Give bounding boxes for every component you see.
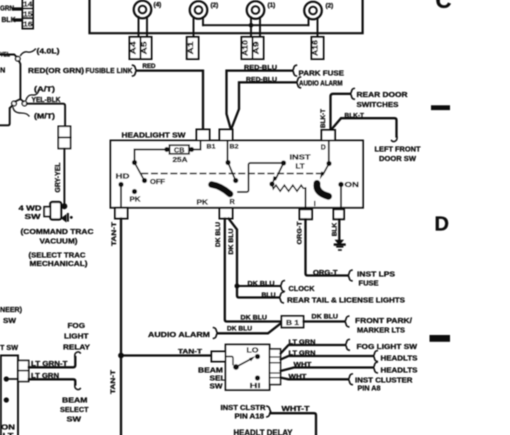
svg-text:AUDIO ALARM: AUDIO ALARM (299, 79, 343, 88)
brace inst lps fuse (348, 270, 352, 281)
wire A/T branch to connector (27, 104, 65, 127)
terminal B2 (220, 130, 233, 141)
svg-text:DK BLU: DK BLU (248, 280, 275, 287)
svg-text:SW: SW (3, 316, 17, 325)
svg-text:LT GRN-T: LT GRN-T (31, 359, 68, 368)
svg-text:(2): (2) (326, 2, 334, 9)
svg-text:14: 14 (23, 1, 32, 8)
svg-text:FRONT PARK/: FRONT PARK/ (355, 316, 413, 325)
svg-text:DK BLU: DK BLU (227, 326, 252, 333)
wire TAN-T down (120, 219, 122, 435)
bulb3 legs to A10 A9 (251, 17, 260, 37)
wire LT GRN to headlts 1 (281, 356, 373, 360)
hook left front door sw (392, 135, 398, 142)
inline connector GRY-YEL upper (58, 126, 70, 137)
D switch arm with arrowhead (323, 164, 329, 175)
rheostat zigzag (272, 184, 306, 191)
brace front park (345, 316, 349, 327)
splice B1 (282, 316, 304, 328)
INST lower contact (269, 181, 274, 186)
svg-text:TAN-T: TAN-T (111, 221, 118, 246)
svg-text:REAR TAIL & LICENSE LIGHTS: REAR TAIL & LICENSE LIGHTS (287, 296, 405, 305)
linkage dashed line (142, 173, 321, 175)
wire to clock (237, 285, 280, 287)
wire RED-BLU to park fuse (227, 71, 293, 130)
wire RED to B1 terminal (137, 71, 203, 130)
svg-text:MECHANICAL): MECHANICAL) (30, 259, 89, 268)
svg-text:LT GRN: LT GRN (31, 371, 59, 380)
wire YEL down to junction (19, 61, 20, 99)
svg-text:SW: SW (67, 415, 83, 424)
wire RED-BLU to audio alarm (232, 82, 296, 127)
svg-text:INST LPS: INST LPS (357, 270, 395, 279)
svg-text:NEER): NEER) (0, 305, 22, 314)
brace fusible link (133, 65, 137, 76)
beam linkage step (226, 357, 234, 365)
connector A10 (242, 37, 253, 59)
left wiper arc (212, 185, 231, 195)
svg-text:REAR DOOR: REAR DOOR (357, 90, 409, 99)
OFF contact (142, 178, 147, 183)
brace park fuse (293, 65, 297, 76)
svg-text:(4): (4) (154, 1, 162, 8)
wire CB to B1 (192, 141, 201, 150)
beam sel sw left connector (212, 352, 226, 362)
svg-text:SW: SW (210, 382, 224, 391)
svg-text:WHT-T: WHT-T (282, 404, 311, 413)
wire LT GRN-T to fog light relay (29, 357, 76, 367)
svg-text:RED(OR GRN): RED(OR GRN) (28, 66, 85, 75)
svg-text:RELAY: RELAY (63, 343, 90, 352)
wire WHT to headlts 2 (281, 368, 373, 372)
wire HD to PK terminal (120, 185, 122, 208)
beam sel sw right connectors (270, 349, 281, 385)
wire WHT-T to headlt delay (271, 413, 316, 435)
svg-text:PIN A18: PIN A18 (235, 414, 265, 421)
svg-text:R: R (230, 197, 236, 206)
4WD switch wedge contact (61, 214, 67, 223)
terminal I (ORG-T) (300, 209, 313, 219)
svg-text:LO: LO (247, 346, 259, 355)
4WD switch tab (44, 207, 50, 217)
terminal D (322, 130, 336, 141)
wire WHT to inst cluster (281, 378, 348, 380)
svg-text:DOOR SW: DOOR SW (379, 154, 417, 163)
wire LT GRN to fog light sw (281, 345, 345, 354)
svg-text:ORG-T: ORG-T (313, 268, 338, 277)
pin 14 (23, 0, 34, 9)
bulb1 legs to A4 A5 (139, 17, 148, 37)
connector A1 (187, 37, 199, 59)
svg-text:BLK-T: BLK-T (320, 108, 327, 128)
svg-text:(COMMAND TRAC: (COMMAND TRAC (21, 227, 94, 236)
wire TAN-T to beam sel sw (121, 354, 212, 356)
fog/beam switch box (cut at edge) (1, 355, 18, 435)
connector A9 (253, 37, 264, 59)
svg-text:(A/T): (A/T) (34, 85, 56, 94)
wire BLK-T to left front door sw (332, 118, 397, 136)
connector A16 (312, 37, 324, 59)
svg-text:CB: CB (174, 147, 185, 154)
brace rear door switches (351, 88, 355, 99)
right wiper arc (317, 184, 329, 197)
svg-text:INST: INST (290, 153, 312, 162)
svg-text:DK BLU: DK BLU (241, 314, 268, 321)
terminal B1 (197, 130, 210, 141)
inline connector GRY-YEL lower (58, 138, 70, 149)
svg-text:(2): (2) (211, 2, 219, 9)
svg-text:BEAM: BEAM (62, 396, 88, 405)
wire GRY-YEL (63, 149, 65, 204)
PK contact left (132, 189, 137, 194)
4WD switch contact dot (61, 203, 67, 209)
HI contact (255, 375, 260, 380)
pointer squiggle M/T (13, 108, 29, 117)
bus wire inside housing (203, 24, 309, 26)
brace audio alarm top (297, 77, 301, 88)
margin dash 2 (430, 335, 451, 342)
brace headlts 2 (374, 362, 378, 373)
wire rheostat to I terminal (305, 188, 307, 209)
junction TAN-T (118, 353, 124, 359)
svg-text:GRY-YEL: GRY-YEL (55, 162, 62, 193)
svg-text:HEADLT DELAY: HEADLT DELAY (234, 429, 294, 435)
connector A4 (130, 37, 141, 59)
brace rear tail (280, 292, 284, 303)
svg-text:B1: B1 (207, 144, 216, 151)
svg-text:BLK: BLK (331, 223, 338, 237)
svg-text:PIN A8: PIN A8 (358, 384, 381, 393)
svg-text:BLU: BLU (262, 292, 276, 299)
left switch pivot (132, 160, 137, 165)
pin 15 (23, 9, 34, 19)
svg-text:LT GRN: LT GRN (289, 339, 316, 346)
terminal PK bottom (115, 208, 128, 219)
svg-text:A16: A16 (313, 40, 320, 56)
4WD switch body (50, 202, 61, 220)
svg-text:ON: ON (345, 180, 360, 189)
svg-text:WHT: WHT (294, 362, 313, 369)
svg-text:16: 16 (23, 22, 32, 29)
wire ON to BLK terminal (340, 185, 342, 210)
svg-text:LT: LT (3, 431, 15, 435)
svg-text:B 1: B 1 (286, 318, 299, 327)
svg-text:D: D (435, 214, 449, 236)
svg-text:A1: A1 (188, 41, 195, 54)
svg-text:C: C (436, 0, 452, 13)
svg-text:LIGHT: LIGHT (64, 332, 89, 341)
svg-text:D: D (321, 145, 326, 152)
svg-text:A10: A10 (242, 40, 249, 56)
wire DK BLU to clock/rear tail (229, 219, 279, 298)
svg-text:FUSIBLE LINK: FUSIBLE LINK (86, 66, 133, 75)
wire INST pivot to R node (238, 163, 284, 192)
svg-text:DK BLU: DK BLU (215, 222, 222, 247)
B2 lower contact (233, 178, 238, 183)
svg-text:I: I (314, 199, 316, 208)
svg-text:RED: RED (143, 63, 156, 70)
svg-text:N: N (0, 66, 5, 75)
svg-text:HEADLTS: HEADLTS (381, 365, 418, 374)
svg-text:PK: PK (197, 198, 209, 207)
svg-text:TAN-T: TAN-T (110, 369, 117, 394)
pin 16 (23, 18, 34, 28)
margin dash 1 (431, 105, 450, 110)
contact dot upper (4, 376, 9, 381)
svg-text:PARK FUSE: PARK FUSE (299, 69, 345, 78)
switch box connector upper (18, 361, 29, 371)
svg-text:AUDIO ALARM: AUDIO ALARM (148, 330, 210, 339)
B2 switch pivot (225, 160, 230, 165)
hook beam select sw (75, 383, 81, 390)
wire ORG-T to inst lps fuse (306, 219, 348, 275)
svg-text:TAN-T: TAN-T (178, 348, 203, 355)
svg-text:VACUUM): VACUUM) (40, 237, 78, 246)
svg-text:25A: 25A (173, 157, 188, 164)
lamp housing box (top, cut off) (90, 0, 363, 33)
wire DK BLU to B1 splice (225, 219, 282, 322)
svg-text:(4.0L): (4.0L) (37, 47, 61, 56)
svg-text:HEADLTS: HEADLTS (381, 353, 418, 362)
switch box connector lower (18, 371, 29, 382)
brace headlts 1 (374, 351, 378, 362)
svg-text:LEFT FRONT: LEFT FRONT (375, 145, 421, 154)
bulb park/turn lamp (1) (247, 1, 265, 19)
connector M/T (12, 101, 17, 106)
brace inst clstr (267, 406, 271, 417)
bulb4 legs (309, 18, 318, 37)
svg-text:WHT: WHT (289, 374, 308, 381)
svg-text:(M/T): (M/T) (34, 112, 56, 121)
beam arm with arrowhead (236, 360, 250, 368)
connector 4.0L (15, 57, 20, 62)
svg-text:SELECT: SELECT (60, 405, 89, 414)
wire BLK to ground (338, 219, 340, 240)
brace fog light sw (346, 339, 350, 350)
pointer squiggle A/T (26, 91, 39, 101)
INST pivot (281, 160, 286, 165)
contact dot lower (4, 397, 9, 402)
connector A/T (22, 101, 27, 106)
svg-text:LT: LT (296, 162, 306, 171)
svg-text:PK: PK (130, 195, 142, 204)
svg-text:SWITCHES: SWITCHES (357, 100, 399, 109)
brace inst cluster (349, 374, 353, 385)
INST switch arm with arrowhead (276, 163, 284, 180)
left switch arm (135, 163, 144, 180)
svg-text:INST CLSTR: INST CLSTR (221, 403, 267, 412)
terminal BLK (334, 209, 345, 219)
wire M/T branch to left edge (0, 106, 13, 126)
bulb marker lamp (2) (304, 2, 322, 20)
wire DK BLU audio alarm to B1 splice (218, 323, 282, 334)
svg-text:HEADLIGHT SW: HEADLIGHT SW (122, 131, 187, 140)
svg-text:OFF: OFF (150, 177, 166, 186)
terminal R bottom (220, 208, 233, 219)
brace audio alarm bottom (214, 328, 218, 339)
svg-text:CLOCK: CLOCK (289, 284, 316, 293)
bulb marker lamp (2) (190, 1, 208, 19)
brace clock (281, 281, 285, 292)
svg-text:HD: HD (116, 172, 131, 181)
svg-text:FOG: FOG (68, 321, 86, 330)
D switch pivot (326, 161, 331, 166)
wire BLK-T to rear door switches (331, 94, 350, 130)
svg-text:(1): (1) (268, 2, 276, 9)
svg-text:MARKER LTS: MARKER LTS (357, 325, 405, 334)
svg-text:B2: B2 (230, 144, 239, 151)
beam wiper dot (233, 364, 239, 370)
ground symbol (335, 240, 344, 246)
ON contact (338, 182, 343, 187)
beam sel sw box (226, 345, 270, 391)
wire B1 splice to front park (304, 320, 345, 322)
B2 switch arm (228, 163, 235, 179)
wire LT GRN to beam select sw (29, 379, 76, 384)
svg-text:DK BLU: DK BLU (228, 228, 235, 254)
bulb park/turn lamp (4) (134, 1, 152, 19)
circuit breaker CB 25A (164, 147, 169, 152)
wire CB to switch pivot (135, 150, 167, 163)
svg-text:LT GRN: LT GRN (289, 350, 316, 357)
svg-text:A9: A9 (253, 41, 260, 54)
wire B2 terminal to pivot (227, 141, 229, 163)
svg-text:HI: HI (250, 381, 261, 390)
svg-text:YEL-BLK: YEL-BLK (32, 95, 62, 104)
junction clock branch (235, 284, 240, 289)
LO contact (255, 354, 260, 359)
svg-text:A4: A4 (130, 41, 137, 54)
svg-text:DK BLU: DK BLU (312, 313, 339, 320)
svg-text:FUSE: FUSE (359, 279, 379, 288)
connector A5 (141, 37, 152, 59)
bulb2 legs (194, 17, 204, 37)
svg-text:A5: A5 (141, 41, 148, 54)
hook fog light relay (75, 352, 81, 359)
pointer squiggle 4.0L (21, 49, 36, 56)
junction forks (15, 99, 24, 102)
svg-text:T SW: T SW (0, 343, 19, 352)
svg-text:ORG-T: ORG-T (296, 221, 303, 245)
svg-text:SW: SW (25, 212, 42, 221)
svg-text:FOG LIGHT SW: FOG LIGHT SW (357, 342, 419, 351)
junction bus/bulb3 (249, 23, 254, 28)
wire D terminal to pivot (328, 141, 330, 164)
headlight switch box (111, 141, 364, 208)
